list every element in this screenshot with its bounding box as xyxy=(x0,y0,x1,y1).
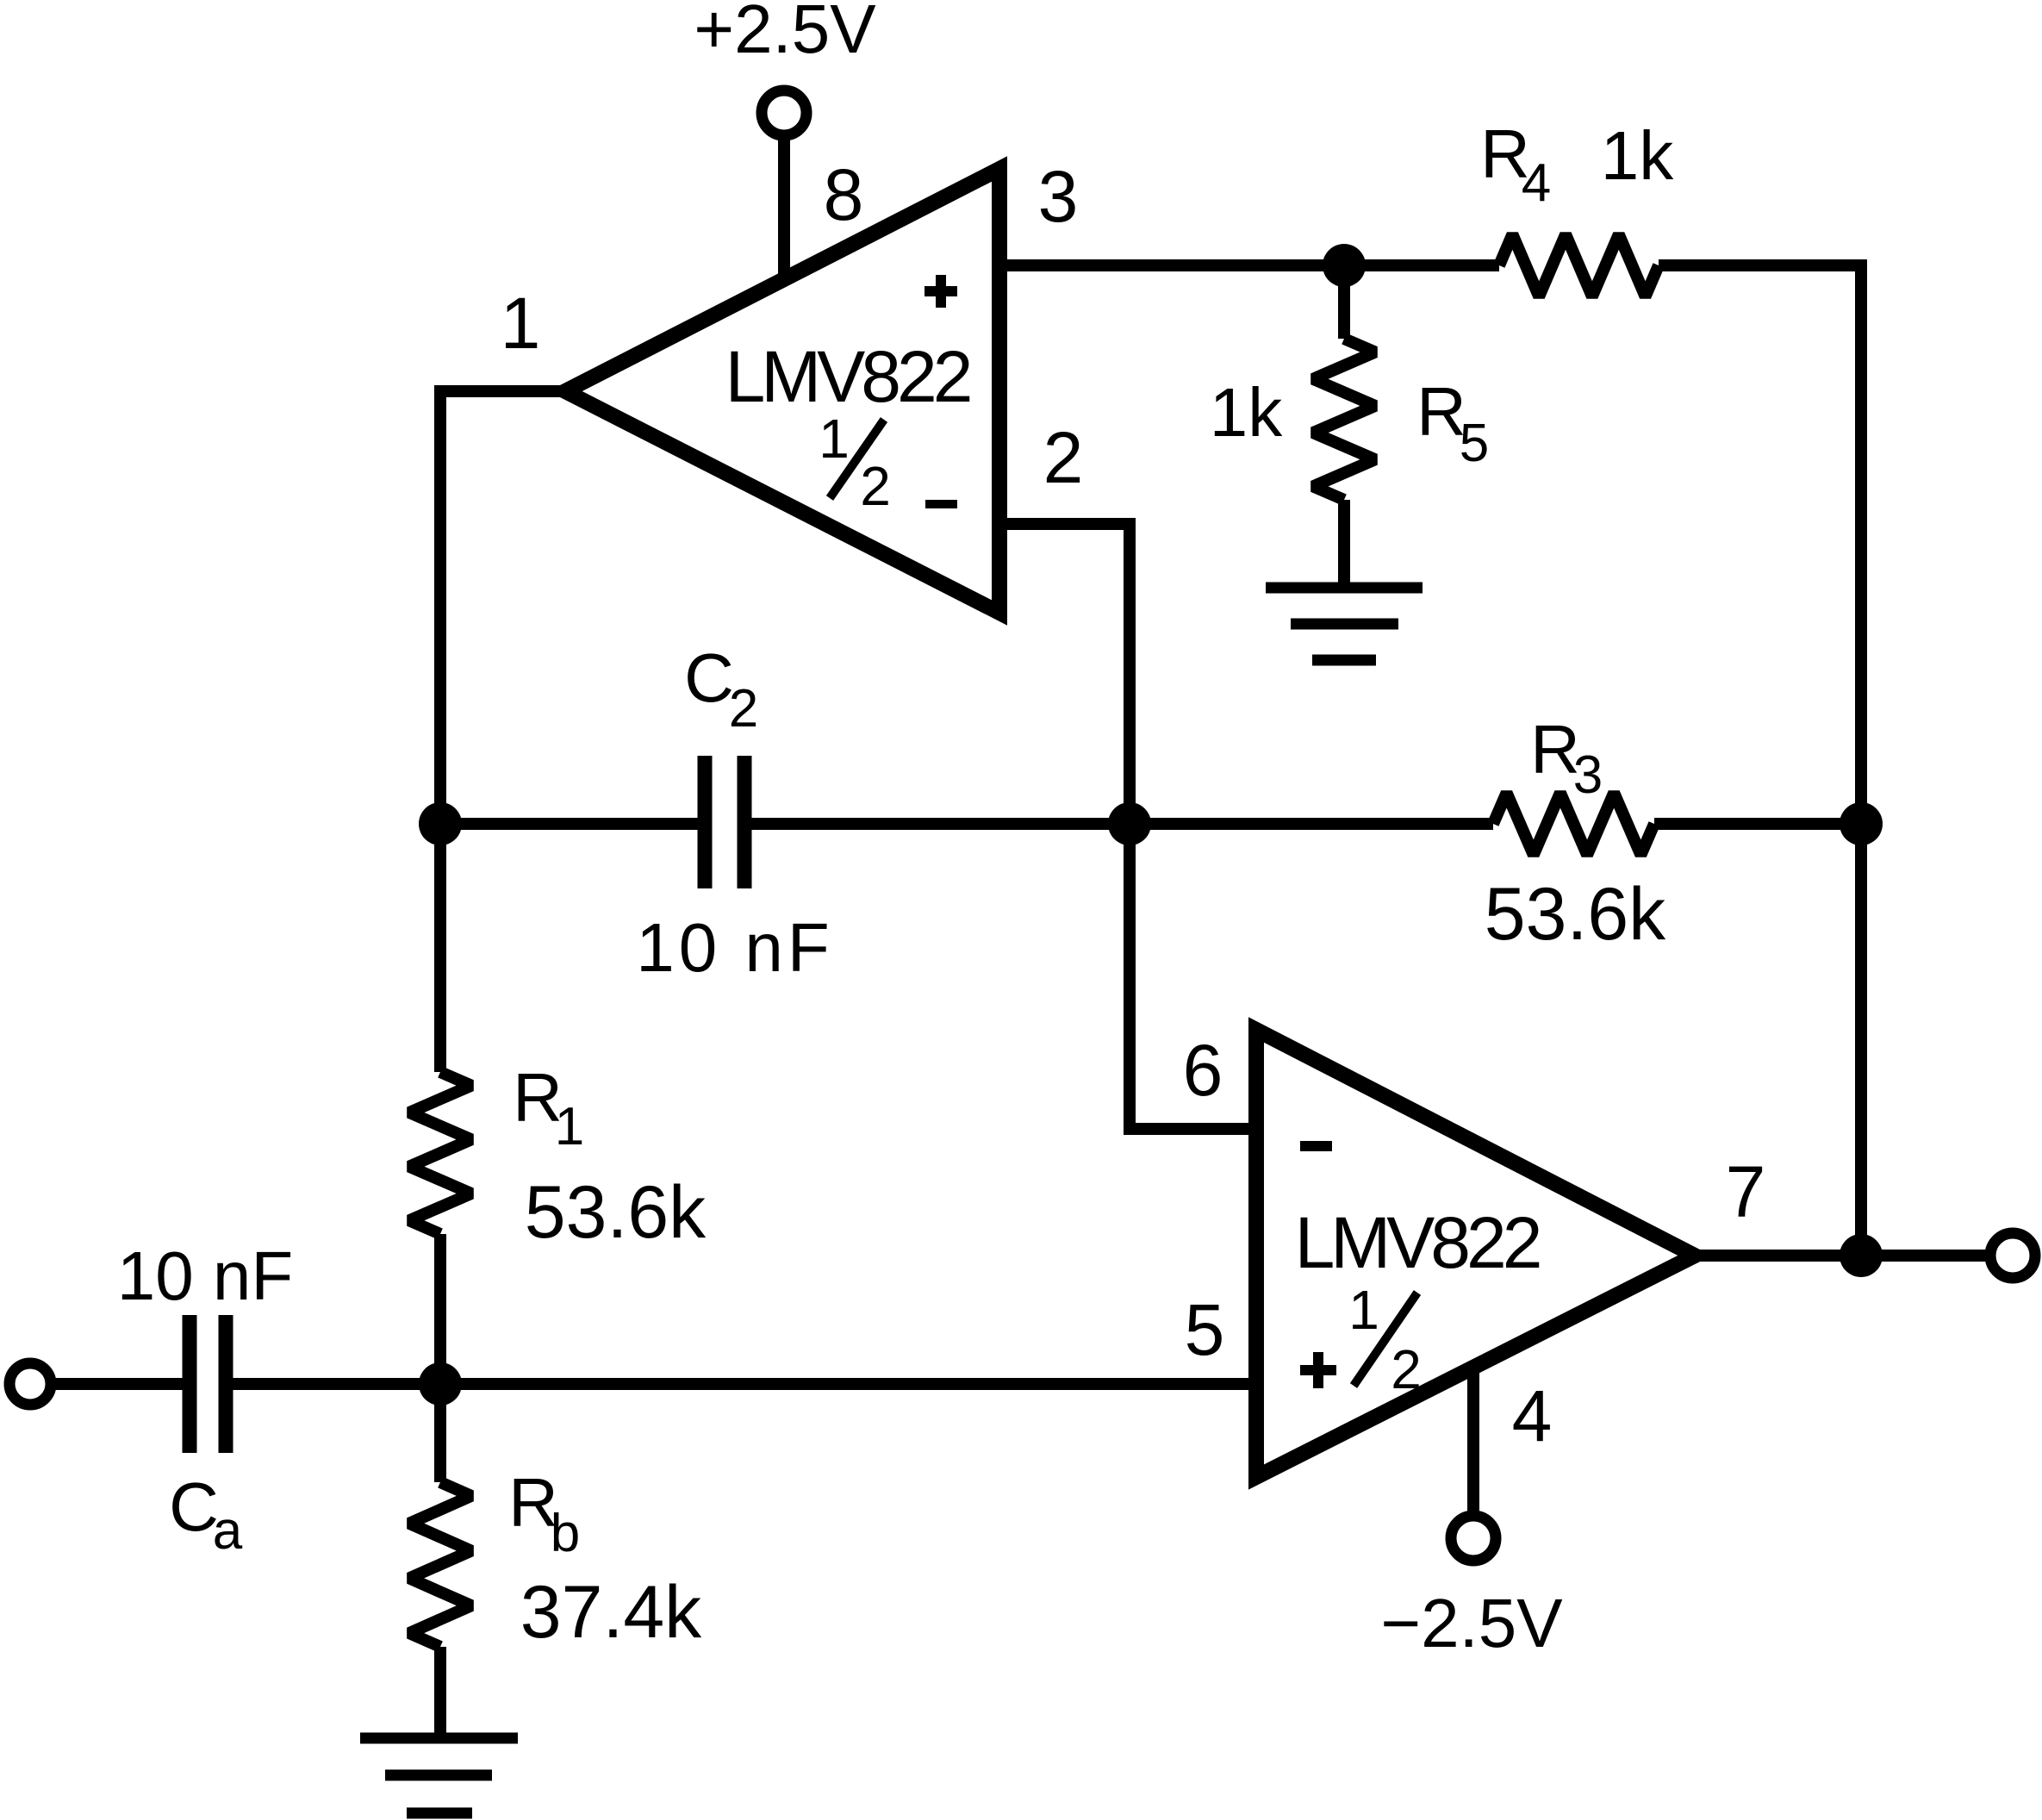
svg-text:3: 3 xyxy=(1038,156,1079,237)
wire C2 left lead xyxy=(440,818,698,830)
svg-text:53.6k: 53.6k xyxy=(525,1171,707,1254)
node C2/R3/pin2 xyxy=(1108,802,1151,845)
wire pin7 output xyxy=(1689,1250,1861,1262)
capacitor C2 10nF plates xyxy=(698,756,713,888)
svg-text:+2.5V: +2.5V xyxy=(694,0,876,67)
wire Ca to node and pin5 xyxy=(233,1378,1256,1390)
output terminal xyxy=(1990,1233,2035,1278)
capacitor Ca 10nF plates xyxy=(183,1315,197,1453)
svg-text:4: 4 xyxy=(1512,1375,1553,1456)
svg-text:b: b xyxy=(551,1504,580,1563)
wire R3 left lead xyxy=(1130,818,1493,830)
svg-text:C: C xyxy=(169,1468,219,1545)
resistor Rb 37.4k xyxy=(409,1482,471,1647)
svg-text:LMV822: LMV822 xyxy=(725,336,970,417)
svg-text:53.6k: 53.6k xyxy=(1485,873,1666,956)
wire pin4 supply xyxy=(1467,1362,1479,1516)
wire pin8 supply xyxy=(778,135,790,290)
svg-text:LMV822: LMV822 xyxy=(1295,1202,1540,1283)
V+ terminal +2.5V xyxy=(762,90,806,135)
svg-text:4: 4 xyxy=(1522,153,1551,213)
U1a half fraction slash xyxy=(830,420,884,498)
ground for Rb xyxy=(360,1733,518,1744)
resistor R4 1k xyxy=(1499,234,1659,296)
wire pin3 to R4 node xyxy=(999,259,1344,271)
svg-text:7: 7 xyxy=(1726,1151,1766,1232)
resistor R1 53.6k xyxy=(409,1072,471,1234)
input terminal xyxy=(9,1363,51,1405)
node pin1/C2/R1 xyxy=(419,802,462,845)
svg-text:−2.5V: −2.5V xyxy=(1380,1585,1563,1661)
wire R5 top lead xyxy=(1338,265,1350,339)
node R4/R5 junction xyxy=(1323,244,1366,287)
svg-text:3: 3 xyxy=(1573,745,1603,805)
U1b plus (pin5 noninverting) xyxy=(1300,1365,1336,1375)
node output xyxy=(1840,1234,1883,1277)
svg-text:10 nF: 10 nF xyxy=(117,1237,294,1314)
svg-text:10 nF: 10 nF xyxy=(636,909,834,986)
wire left vertical net xyxy=(434,391,446,1072)
svg-text:2: 2 xyxy=(729,679,758,739)
wire R5 to ground xyxy=(1338,500,1350,583)
svg-text:C: C xyxy=(684,639,734,716)
svg-text:1k: 1k xyxy=(1601,117,1674,194)
resistor R5 1k xyxy=(1313,339,1375,500)
svg-text:1: 1 xyxy=(501,283,541,364)
svg-text:5: 5 xyxy=(1185,1289,1225,1370)
svg-text:8: 8 xyxy=(824,154,864,235)
svg-text:6: 6 xyxy=(1183,1030,1223,1111)
wire Rb to ground xyxy=(434,1647,446,1733)
op-amp U1b LMV822 (right-pointing) xyxy=(1256,1030,1695,1477)
wire output to terminal xyxy=(1861,1250,1990,1262)
wire R4 to right rail and rail down xyxy=(1659,265,1861,1256)
resistor R3 53.6k xyxy=(1493,793,1654,855)
svg-text:2: 2 xyxy=(1043,417,1084,498)
V- terminal -2.5V xyxy=(1451,1516,1496,1561)
U1b minus (pin6 inverting) xyxy=(1300,1141,1332,1151)
op-amp U1a LMV822 (left-pointing) xyxy=(565,169,999,613)
svg-text:37.4k: 37.4k xyxy=(520,1571,702,1654)
wire pin2 to pin6 xyxy=(999,524,1256,1129)
U1a plus (pin3 noninverting) xyxy=(925,286,957,296)
svg-text:5: 5 xyxy=(1460,414,1489,473)
svg-text:2: 2 xyxy=(1391,1338,1422,1400)
wire pin1 output xyxy=(434,385,565,397)
svg-text:1: 1 xyxy=(555,1097,584,1156)
wire R1 to input node xyxy=(434,1234,446,1482)
wire R4 lead left xyxy=(1344,259,1499,271)
wire R3 right lead xyxy=(1654,818,1861,830)
U1a minus (pin2 inverting) xyxy=(925,500,957,508)
node input/R1/Rb/pin5 xyxy=(419,1362,462,1406)
svg-text:a: a xyxy=(213,1501,243,1561)
svg-text:1: 1 xyxy=(1348,1279,1379,1341)
wire C2 right lead xyxy=(751,818,1130,830)
svg-text:2: 2 xyxy=(860,455,891,517)
node R3/right rail xyxy=(1840,802,1883,845)
svg-text:1k: 1k xyxy=(1210,374,1283,451)
ground for R5 xyxy=(1266,583,1423,594)
svg-text:1: 1 xyxy=(819,408,850,470)
U1b half fraction slash xyxy=(1354,1293,1417,1386)
wire input to Ca xyxy=(51,1378,183,1390)
